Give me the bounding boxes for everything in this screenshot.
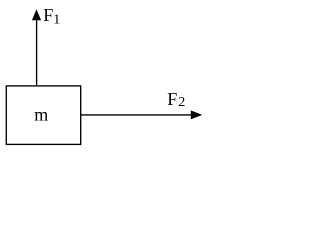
F1 arrowhead	[32, 9, 41, 20]
svg-text:F1: F1	[43, 5, 60, 27]
svg-text:m: m	[34, 104, 48, 124]
wire F1 arrow shaft	[36, 19, 38, 87]
wire F2 arrow shaft	[81, 114, 192, 116]
mass block m	[6, 86, 80, 144]
F2 arrowhead	[191, 110, 202, 119]
svg-text:F2: F2	[167, 89, 185, 110]
